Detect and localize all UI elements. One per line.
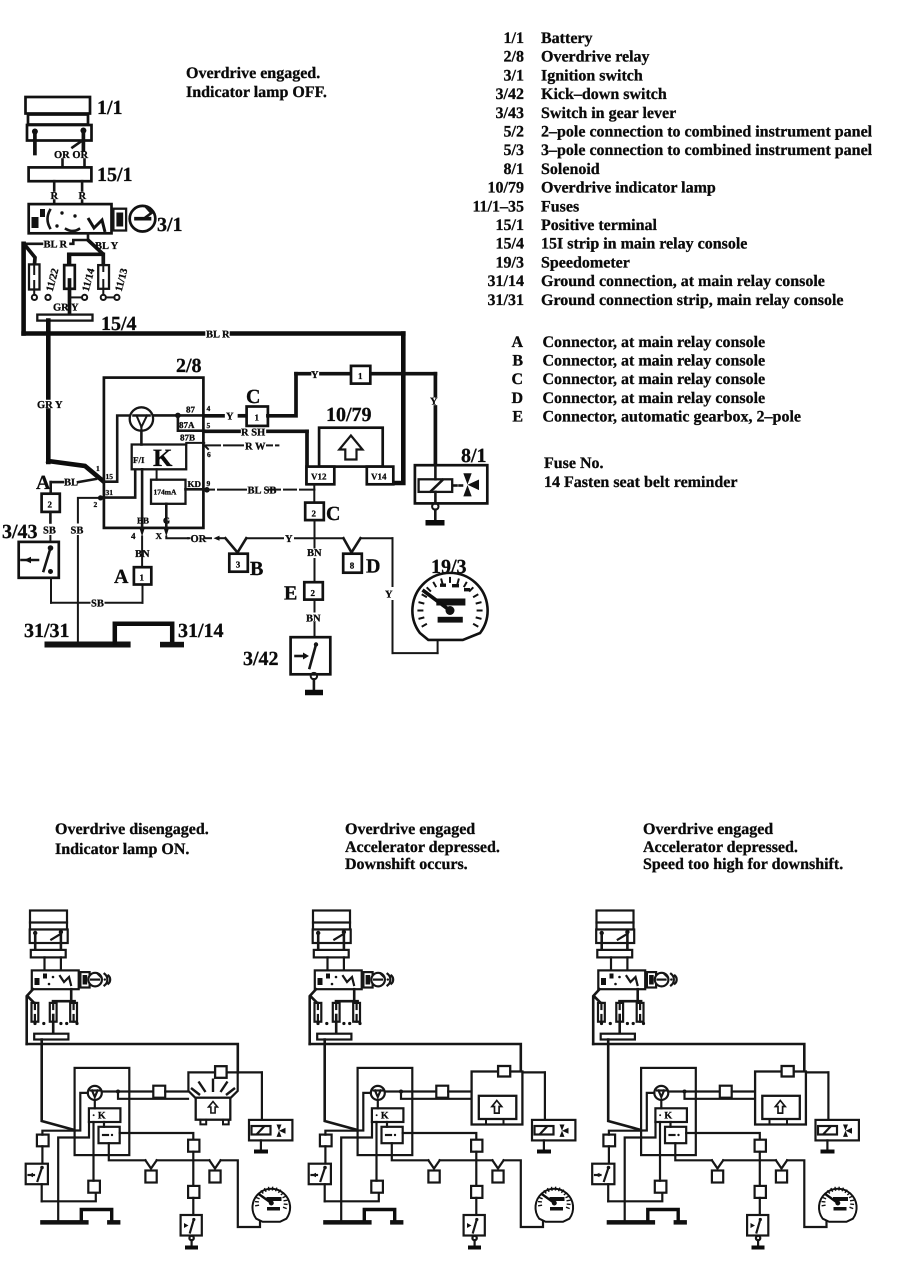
svg-text:KD: KD: [188, 479, 202, 489]
fuse 11/14: [64, 254, 87, 314]
svg-text:E: E: [284, 583, 297, 605]
fuse feed bus: [69, 254, 104, 265]
wire pin 31 to K: [104, 469, 135, 497]
svg-text:R SH: R SH: [241, 428, 265, 439]
svg-text:87B: 87B: [180, 433, 195, 443]
svg-text:Y: Y: [385, 590, 393, 601]
wire battery to strip: [83, 160, 86, 168]
connector E: [304, 582, 323, 599]
relay pin 4 wire down: [131, 469, 149, 567]
wire OR: [188, 536, 225, 541]
svg-text:1: 1: [96, 464, 100, 473]
svg-text:5: 5: [207, 421, 211, 430]
svg-text:Connector, at main relay conso: Connector, at main relay console: [543, 371, 766, 388]
svg-text:3/43: 3/43: [2, 521, 38, 543]
svg-text:Kick–down switch: Kick–down switch: [541, 86, 667, 103]
svg-text:2/8: 2/8: [176, 355, 202, 377]
svg-text:A: A: [511, 334, 523, 351]
svg-text:X: X: [156, 531, 163, 541]
svg-text:174mA: 174mA: [154, 488, 177, 497]
svg-text:Ground connection strip, main: Ground connection strip, main relay cons…: [541, 292, 844, 309]
Y bus top: [296, 372, 435, 376]
svg-text:C: C: [326, 503, 340, 525]
svg-text:3/1: 3/1: [504, 67, 524, 84]
svg-text:Indicator lamp ON.: Indicator lamp ON.: [55, 841, 189, 858]
svg-text:1: 1: [255, 413, 260, 423]
svg-text:Ignition switch: Ignition switch: [541, 67, 643, 84]
svg-text:Y: Y: [226, 412, 234, 423]
wire SB long vertical: [78, 495, 104, 641]
bus down to lamp leg: [393, 334, 403, 484]
svg-text:11/13: 11/13: [114, 267, 131, 292]
svg-text:2/8: 2/8: [504, 49, 524, 66]
svg-text:8/1: 8/1: [461, 445, 487, 467]
svg-text:Solenoid: Solenoid: [541, 161, 600, 178]
svg-text:BL R: BL R: [206, 330, 230, 341]
svg-text:15: 15: [106, 472, 114, 481]
svg-text:Accelerator depressed.: Accelerator depressed.: [345, 839, 500, 856]
connector B: [229, 554, 248, 572]
svg-text:BL SB: BL SB: [248, 486, 277, 497]
fork to connector D: [344, 538, 361, 552]
positive terminal strip 15/1: [29, 167, 92, 181]
wire SB horizontal: [51, 585, 143, 603]
diagonal wire to fuse 11/22: [25, 245, 36, 265]
wire R SH: [204, 431, 307, 483]
wire pin 15 to transistor: [104, 416, 130, 482]
ground at kick-down: [305, 690, 323, 696]
svg-text:2: 2: [48, 500, 53, 510]
svg-text:V14: V14: [371, 472, 387, 482]
wire transistor to K: [140, 431, 143, 445]
svg-text:10/79: 10/79: [488, 180, 524, 197]
wire R left: [53, 181, 56, 190]
svg-text:1/1: 1/1: [97, 97, 123, 119]
svg-text:5/2: 5/2: [504, 124, 524, 141]
svg-text:C: C: [511, 371, 523, 388]
gear lever switch 3/43: [19, 542, 59, 578]
wire 87B: [186, 443, 204, 445]
wire 87 with junction: [153, 413, 204, 419]
svg-text:19/3: 19/3: [496, 254, 524, 271]
svg-text:Downshift occurs.: Downshift occurs.: [345, 856, 468, 873]
key symbol of 3/1: [130, 206, 156, 232]
fork to connector B: [225, 538, 246, 552]
svg-text:1: 1: [140, 573, 145, 583]
lamp left leg V12: [307, 467, 335, 490]
wire K to timer: [156, 469, 158, 479]
svg-text:Overdrive engaged.: Overdrive engaged.: [186, 65, 320, 82]
svg-text:3/42: 3/42: [496, 86, 524, 103]
wire junction to E: [314, 538, 316, 582]
wire R right: [81, 181, 84, 190]
svg-text:D: D: [511, 390, 523, 407]
svg-text:11/1–35: 11/1–35: [472, 198, 524, 215]
svg-text:BL R: BL R: [44, 240, 68, 251]
Y wire down to solenoid: [434, 374, 438, 466]
svg-text:BL Y: BL Y: [95, 241, 119, 252]
svg-text:B: B: [250, 558, 263, 580]
lamp arrow: [339, 436, 362, 460]
ignition switch 3/1: [29, 204, 112, 233]
wire C2 to junction: [314, 520, 316, 538]
svg-text:Y: Y: [430, 397, 438, 408]
svg-text:Battery: Battery: [541, 30, 593, 47]
svg-text:D: D: [366, 556, 380, 578]
battery 1/1: [26, 97, 92, 154]
connector A2: [42, 494, 60, 512]
svg-text:Connector, automatic gearbox,: Connector, automatic gearbox, 2–pole: [543, 408, 802, 425]
svg-text:5/3: 5/3: [504, 142, 524, 159]
wire Y to D: [246, 537, 343, 539]
svg-text:E: E: [512, 408, 523, 425]
svg-text:Accelerator depressed.: Accelerator depressed.: [643, 839, 798, 856]
svg-text:14 Fasten seat belt reminder: 14 Fasten seat belt reminder: [544, 474, 737, 491]
svg-text:G: G: [163, 516, 170, 526]
svg-text:Switch in gear lever: Switch in gear lever: [541, 105, 676, 122]
svg-text:3–pole connection to combined: 3–pole connection to combined instrument…: [541, 142, 873, 159]
svg-text:31/31: 31/31: [488, 292, 524, 309]
svg-text:15/1: 15/1: [496, 217, 524, 234]
ground connection 31/14: [115, 624, 184, 648]
wire 3/43 to SB line: [50, 578, 52, 603]
wire BL SB dashed: [204, 487, 314, 503]
key connector of 3/1: [113, 209, 126, 231]
connector C2: [305, 503, 324, 520]
solenoid ground terminal: [432, 503, 438, 521]
svg-text:SB: SB: [91, 599, 104, 610]
amplifier K box: [132, 445, 187, 473]
left trunk wire: [21, 244, 26, 334]
svg-text:3/43: 3/43: [496, 105, 524, 122]
svg-text:1: 1: [358, 371, 363, 381]
svg-text:Overdrive relay: Overdrive relay: [541, 49, 650, 66]
svg-text:87A: 87A: [179, 420, 195, 430]
relay pin X wire down: [156, 504, 189, 541]
svg-text:SB: SB: [43, 526, 56, 537]
strip 15/4: [37, 315, 92, 321]
svg-text:8/1: 8/1: [504, 161, 524, 178]
speedometer 19/3: [412, 573, 487, 640]
svg-text:6: 6: [207, 450, 211, 459]
svg-text:Overdrive disengaged.: Overdrive disengaged.: [55, 821, 209, 838]
indicator lamp 10/79 box: [319, 428, 383, 467]
svg-text:Overdrive indicator lamp: Overdrive indicator lamp: [541, 180, 716, 197]
svg-text:Connector, at main relay conso: Connector, at main relay console: [543, 353, 766, 370]
transistor inside relay: [130, 407, 153, 430]
wire C1 up to Y bus: [268, 374, 296, 416]
svg-text:GR Y: GR Y: [37, 400, 63, 411]
fuse 11/13: [98, 257, 119, 300]
svg-text:F/I: F/I: [133, 455, 145, 465]
wire Y down to speedometer: [361, 538, 438, 653]
svg-text:2: 2: [311, 588, 316, 598]
svg-text:Overdrive engaged: Overdrive engaged: [345, 821, 475, 838]
svg-text:A: A: [36, 472, 51, 494]
svg-text:GR Y: GR Y: [53, 303, 79, 314]
svg-text:Fuse No.: Fuse No.: [544, 455, 604, 472]
svg-text:11/14: 11/14: [81, 267, 98, 293]
svg-text:31/31: 31/31: [24, 620, 70, 642]
svg-text:Y: Y: [285, 534, 293, 545]
wire KD: [186, 488, 205, 491]
svg-text:Speed too high for downshift.: Speed too high for downshift.: [643, 856, 843, 873]
svg-text:B: B: [512, 353, 523, 370]
fuse note: [544, 455, 737, 491]
svg-text:2: 2: [94, 500, 98, 509]
svg-text:15I strip in main relay consol: 15I strip in main relay console: [541, 236, 747, 253]
svg-text:31/14: 31/14: [488, 273, 524, 290]
svg-text:9: 9: [207, 479, 211, 488]
svg-text:C: C: [246, 386, 260, 408]
lamp right leg V14: [367, 467, 394, 485]
relay 2/8 box: [104, 378, 203, 528]
wire R W: [204, 444, 278, 446]
svg-text:Ground connection, at main rel: Ground connection, at main relay console: [541, 273, 825, 290]
svg-text:8: 8: [350, 561, 355, 571]
svg-text:R W: R W: [245, 442, 266, 453]
svg-text:2: 2: [312, 509, 317, 519]
wire BL R from ignition switch to trunk: [24, 233, 88, 244]
svg-text:31/14: 31/14: [178, 620, 224, 642]
svg-text:R: R: [51, 191, 59, 202]
svg-text:K: K: [153, 445, 173, 472]
kick-down bottom terminal: [311, 673, 317, 691]
svg-text:87: 87: [186, 405, 196, 415]
caption: Overdrive engaged, speed too high: [643, 821, 843, 873]
wire battery to strip: [61, 160, 64, 168]
GR Y trunk below 15/4: [48, 321, 104, 482]
svg-text:BL: BL: [64, 478, 78, 489]
svg-text:Indicator lamp OFF.: Indicator lamp OFF.: [186, 84, 327, 101]
wire BL Y diagonal: [89, 241, 103, 254]
wire 87A: [178, 415, 204, 430]
svg-text:Connector, at main relay conso: Connector, at main relay console: [543, 390, 766, 407]
svg-text:3/42: 3/42: [243, 648, 279, 670]
solenoid 8/1: [415, 465, 487, 503]
svg-text:Positive terminal: Positive terminal: [541, 217, 658, 234]
svg-text:15/1: 15/1: [97, 164, 133, 186]
svg-text:11/22: 11/22: [45, 267, 62, 292]
bus wire BL R: [24, 331, 404, 336]
svg-text:15/4: 15/4: [496, 236, 524, 253]
ground strip 31/31: [45, 642, 131, 648]
mini diagram 2: overdrive engaged, downshift occurs: [309, 911, 576, 1248]
svg-text:4: 4: [131, 531, 136, 541]
connector D: [343, 554, 362, 573]
svg-text:A: A: [114, 566, 129, 588]
wire BL from A2 to relay: [51, 479, 96, 494]
svg-text:31: 31: [106, 488, 114, 497]
timer box 174mA: [151, 480, 186, 504]
mini diagram 1: overdrive disengaged, lamp ON: [26, 911, 293, 1248]
connector C1: [204, 407, 268, 426]
svg-text:3: 3: [236, 560, 241, 570]
svg-text:1/1: 1/1: [504, 30, 524, 47]
svg-text:Overdrive engaged: Overdrive engaged: [643, 821, 773, 838]
kick-down switch 3/42: [291, 637, 331, 674]
svg-text:4: 4: [207, 404, 211, 413]
connector A1: [134, 567, 151, 584]
svg-text:2–pole connection to combined: 2–pole connection to combined instrument…: [541, 124, 873, 141]
fuse 11/22: [29, 264, 51, 300]
svg-text:Speedometer: Speedometer: [541, 254, 630, 271]
ground at solenoid: [426, 520, 445, 526]
inline connector box 1: [351, 366, 370, 384]
svg-text:Connector, at main relay conso: Connector, at main relay console: [543, 334, 766, 351]
svg-text:Fuses: Fuses: [541, 198, 579, 215]
svg-text:Y: Y: [311, 370, 319, 381]
svg-text:BN: BN: [307, 548, 322, 559]
svg-text:V12: V12: [311, 472, 327, 482]
caption: Overdrive disengaged: [55, 821, 209, 858]
wire SB from A2 to gear switch: [49, 512, 52, 543]
svg-text:OR: OR: [191, 534, 207, 545]
legend connector list: [511, 334, 801, 425]
svg-text:10/79: 10/79: [326, 404, 372, 426]
legend component list: [472, 30, 872, 309]
svg-text:BN: BN: [135, 549, 150, 560]
svg-text:SB: SB: [71, 526, 84, 537]
wire E to kick-down switch: [314, 600, 316, 638]
svg-text:3/1: 3/1: [157, 214, 183, 236]
mini diagram 3: overdrive engaged, speed too high: [592, 911, 859, 1248]
caption: Overdrive engaged, downshift: [345, 821, 500, 873]
svg-text:BB: BB: [137, 516, 149, 526]
svg-text:R: R: [79, 191, 87, 202]
